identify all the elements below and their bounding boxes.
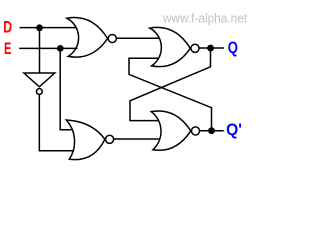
svg-text:Q': Q' [226, 120, 242, 139]
svg-text:D: D [3, 18, 12, 37]
svg-text:www.f-alpha.net: www.f-alpha.net [162, 11, 248, 25]
svg-text:Q: Q [228, 38, 238, 57]
svg-text:E: E [4, 39, 11, 58]
